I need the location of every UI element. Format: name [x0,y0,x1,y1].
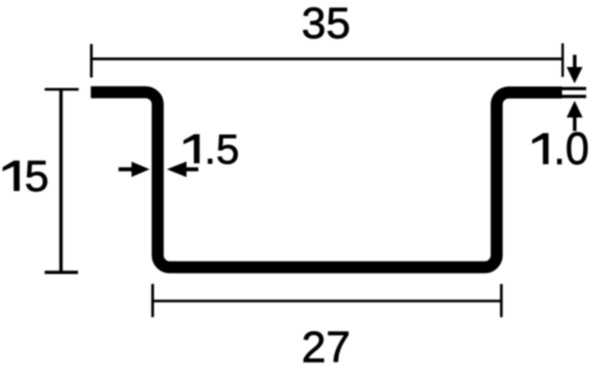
svg-text:.5: .5 [204,125,239,172]
svg-text:.0: .0 [553,124,589,174]
svg-text:35: 35 [302,0,351,48]
svg-text:5: 5 [24,152,48,201]
svg-text:27: 27 [302,323,351,372]
